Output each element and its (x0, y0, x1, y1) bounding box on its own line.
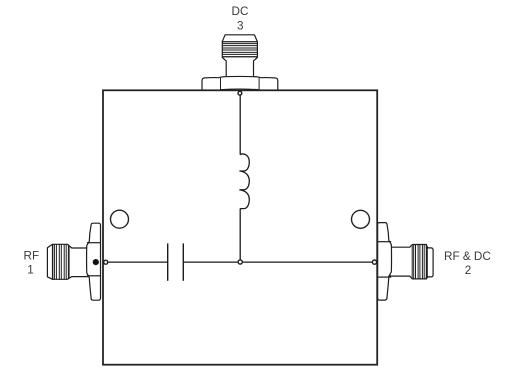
svg-text:RF & DC: RF & DC (444, 250, 491, 263)
svg-text:3: 3 (237, 20, 244, 33)
svg-text:1: 1 (27, 264, 34, 277)
svg-text:DC: DC (232, 5, 249, 18)
svg-text:2: 2 (465, 264, 472, 277)
svg-text:RF: RF (24, 249, 40, 262)
